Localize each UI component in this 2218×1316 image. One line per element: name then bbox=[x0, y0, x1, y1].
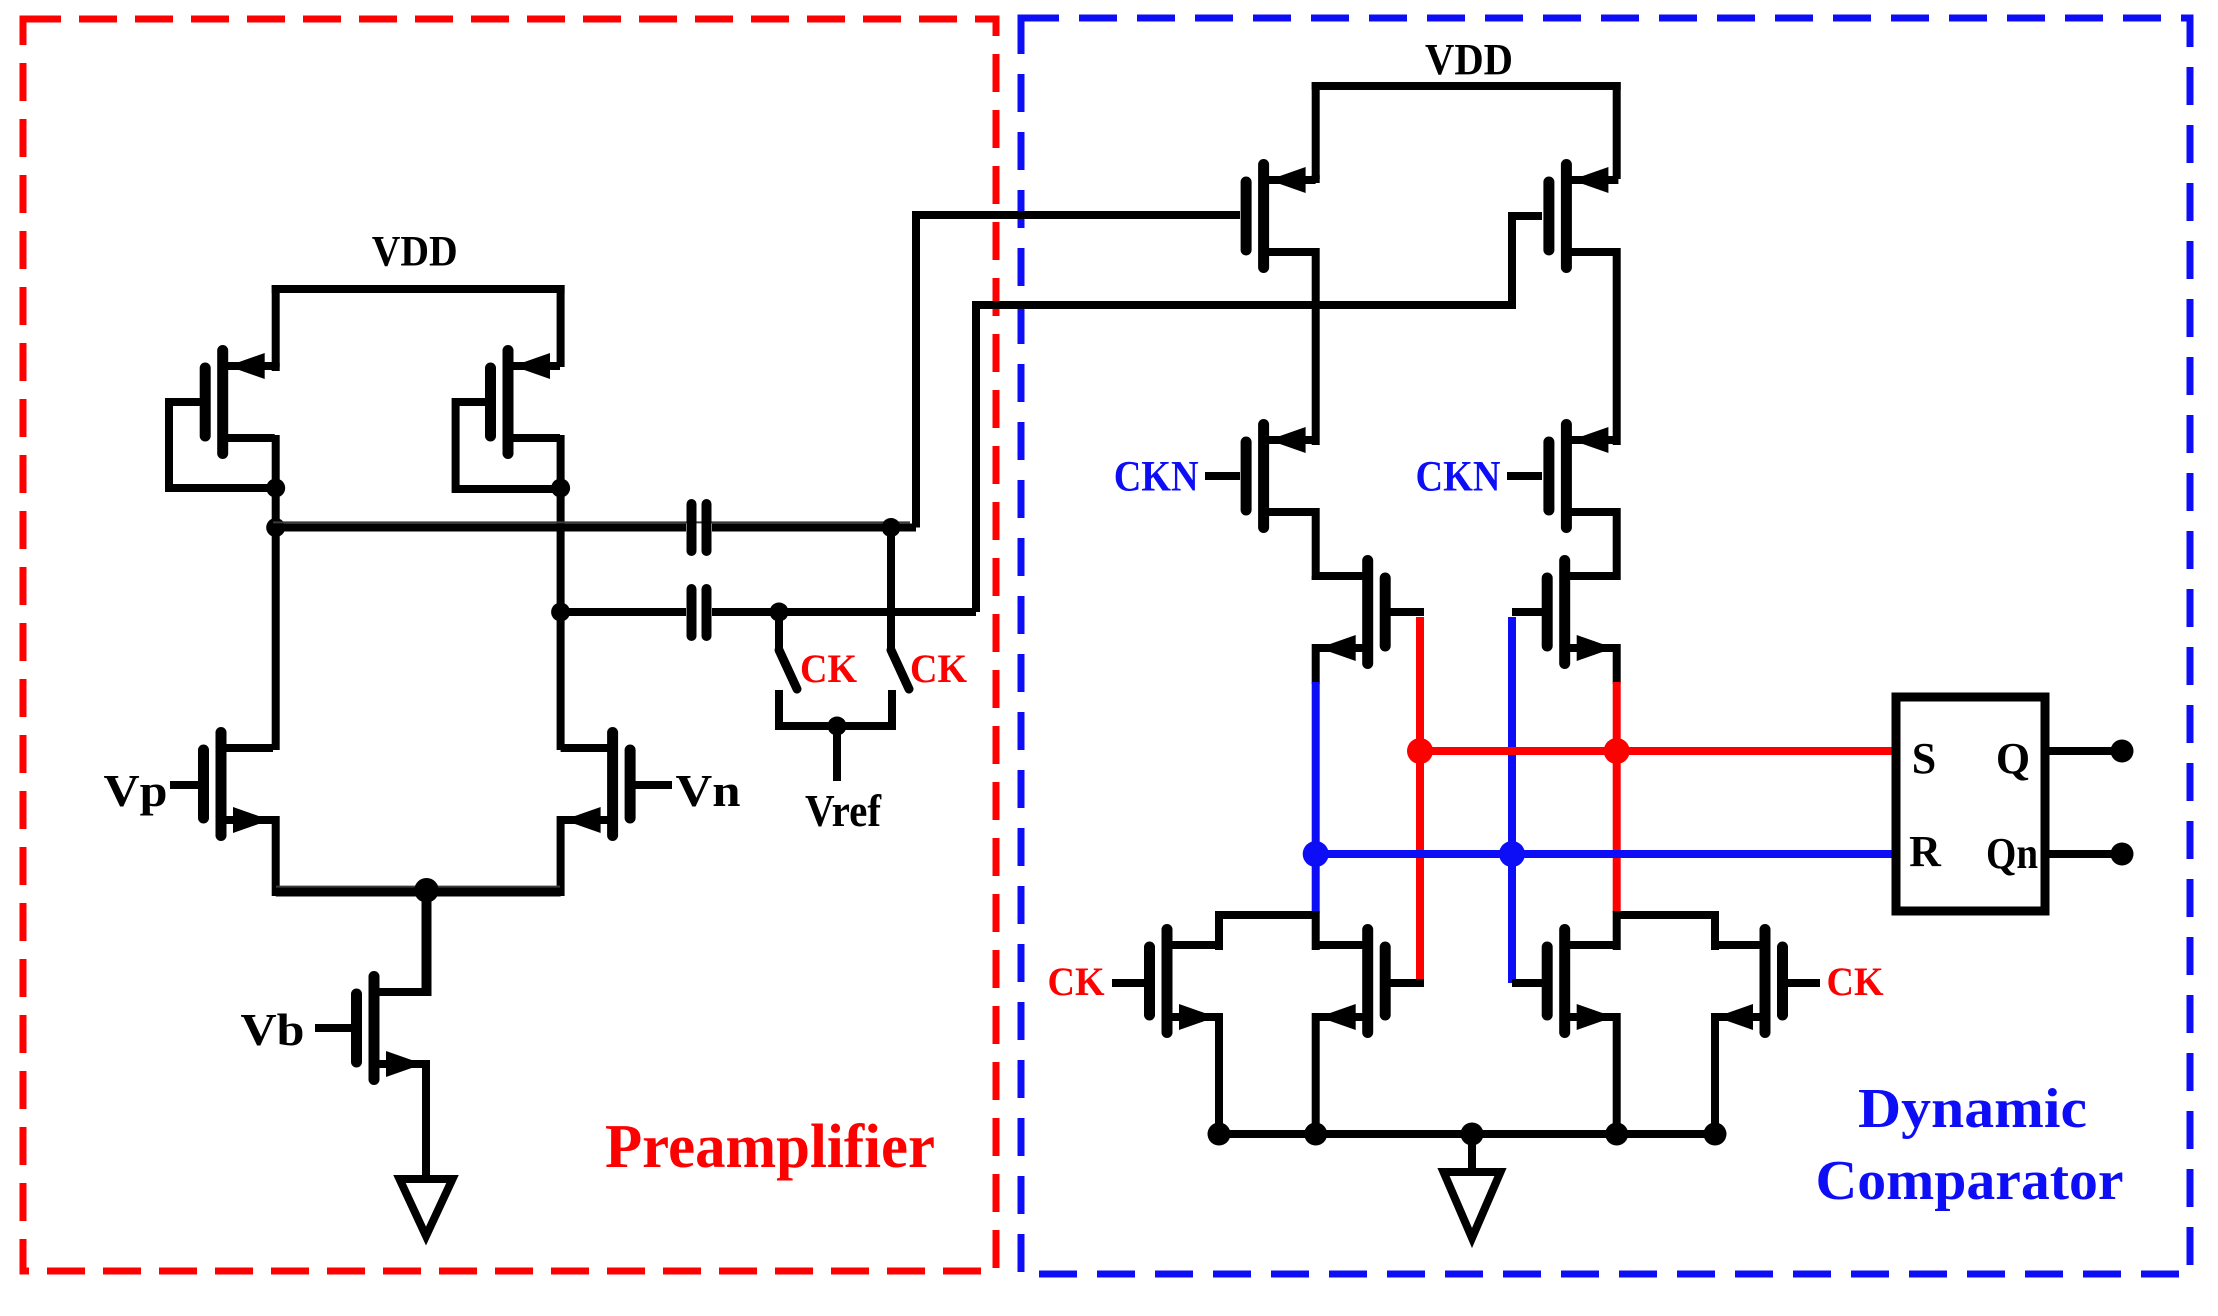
wire P3 drain down bbox=[1312, 508, 1320, 580]
transistor M5 cross-coupled (left) bbox=[1316, 561, 1386, 664]
wire tail to Vb drain bbox=[422, 890, 432, 996]
wire N3 gate stub to R net bbox=[1512, 979, 1542, 987]
wire R net blue vertical (right) bbox=[1508, 617, 1516, 983]
wire N2 source drop bbox=[1312, 1013, 1320, 1134]
wire ground stub (comparator) bbox=[1468, 1134, 1476, 1173]
NMOS input pair Vn (right) bbox=[561, 733, 631, 836]
Dynamic Comparator dashed boundary box bbox=[1021, 18, 2190, 1274]
node M1 drain junction bbox=[266, 479, 285, 498]
node rail junction N2 bbox=[1304, 1123, 1327, 1146]
wire Vn gate stub bbox=[631, 781, 673, 789]
switch S2 blade (CK) bbox=[891, 650, 909, 689]
node M2 drain junction bbox=[551, 479, 570, 498]
capacitor C2 (lower coupling cap) bbox=[692, 589, 707, 636]
ground symbol (preamp) bbox=[400, 1179, 453, 1236]
wire VDD drop left bbox=[1312, 82, 1320, 179]
node preamp output- tap bbox=[551, 603, 570, 622]
Preamplifier dashed boundary box bbox=[23, 19, 996, 1271]
switch S2 hanging wire from upper node bbox=[887, 528, 895, 653]
wire M2 drain to Vn drain bbox=[557, 488, 565, 750]
wire N1 gate stub bbox=[1112, 979, 1145, 987]
wire output Q bbox=[2045, 747, 2113, 755]
wire S net red horizontal to latch bbox=[1420, 747, 1896, 755]
node rail junction N4 bbox=[1704, 1123, 1727, 1146]
switch S1 top contact bbox=[775, 612, 783, 652]
wire S net red vertical (left) bbox=[1416, 617, 1424, 983]
wire drain bracket left pair bbox=[1219, 915, 1316, 950]
svg-text:S: S bbox=[1912, 734, 1936, 783]
wire M5 top terminal corner bbox=[1312, 576, 1320, 580]
svg-text:Qn: Qn bbox=[1986, 829, 2038, 878]
wire artifact thin line above tail rail bbox=[276, 886, 560, 888]
wire drain bracket right pair bbox=[1617, 915, 1715, 950]
wire M1 source corner bbox=[272, 363, 280, 371]
NMOS tail current source Vb bbox=[357, 977, 427, 1080]
wire N1 source drop bbox=[1215, 1013, 1223, 1134]
wire N3 source drop bbox=[1613, 1013, 1621, 1134]
node R net junction right bbox=[1499, 841, 1525, 867]
wire Vp gate stub bbox=[170, 781, 203, 789]
transistor M6 cross-coupled (right) bbox=[1547, 561, 1617, 664]
wire tail rail bbox=[276, 888, 561, 897]
NMOS input pair Vp (left) bbox=[204, 733, 274, 836]
svg-text:CK: CK bbox=[910, 646, 967, 691]
wire N4 source drop bbox=[1711, 1013, 1719, 1134]
PMOS P2 (top right) bbox=[1549, 165, 1619, 268]
wire M6 gate stub to R net bbox=[1512, 608, 1542, 616]
terminal Qn output bbox=[2111, 843, 2134, 866]
wire VDD drop to M2 source bbox=[557, 285, 565, 367]
wire M2 drain drop bbox=[557, 435, 565, 492]
svg-text:CK: CK bbox=[1048, 959, 1105, 1004]
wire cap C2 to comparator riser 2 bbox=[712, 608, 976, 616]
svg-text:Dynamic: Dynamic bbox=[1858, 1078, 2087, 1140]
node preamp output+ tap bbox=[266, 518, 285, 537]
wire P4 drain down bbox=[1613, 508, 1621, 580]
node switch S2 tap on upper wire bbox=[882, 518, 901, 537]
PMOS M1 diode-connected load (left) bbox=[205, 351, 275, 454]
svg-text:Vb: Vb bbox=[241, 1004, 305, 1055]
wire VDD rail (preamp) bbox=[272, 285, 565, 293]
terminal Q output bbox=[2111, 740, 2134, 763]
wire cap C1 to comparator riser bbox=[712, 524, 916, 532]
wire Vref stub bbox=[833, 726, 841, 781]
svg-text:CK: CK bbox=[800, 646, 857, 691]
wire R net blue horizontal to latch bbox=[1316, 850, 1896, 858]
wire P1 source corner bbox=[1312, 175, 1320, 183]
node rail junction N1 bbox=[1208, 1123, 1231, 1146]
wire VDD rail (comparator) bbox=[1312, 82, 1621, 90]
wire preamp out- riser to comparator gate bbox=[976, 216, 1542, 612]
wire M5 gate stub to S net bbox=[1390, 608, 1424, 616]
NMOS N4 clocked CK (outer right) bbox=[1713, 930, 1783, 1033]
wire M1 drain drop bbox=[272, 435, 280, 492]
switch S1 bottom contact bbox=[775, 690, 783, 730]
wire M1 gate to drain (diode connection) bbox=[169, 402, 276, 488]
svg-text:Vp: Vp bbox=[104, 765, 168, 816]
wire VDD drop right bbox=[1613, 82, 1621, 179]
wire M6 source stub down bbox=[1613, 644, 1621, 684]
wire S net red vertical (outer right) bbox=[1613, 682, 1621, 913]
PMOS P3 clock switch CKN (left) bbox=[1246, 425, 1316, 528]
wire common source rail bbox=[1219, 1130, 1715, 1138]
wire M1 drain to Vp drain bbox=[272, 488, 280, 750]
PMOS P4 clock switch CKN (right) bbox=[1549, 425, 1619, 528]
svg-text:Q: Q bbox=[1996, 734, 2030, 783]
wire output- to coupling cap C2 bbox=[561, 608, 686, 616]
wire P1 drain to CKN PMOS P3 bbox=[1312, 248, 1320, 445]
wire R net blue vertical (outer left) bbox=[1312, 682, 1320, 913]
svg-text:R: R bbox=[1909, 827, 1942, 876]
switch S2 bottom contact bbox=[888, 690, 896, 730]
node R net junction left bbox=[1303, 841, 1329, 867]
wire CKN left gate stub bbox=[1205, 472, 1240, 480]
svg-text:Preamplifier: Preamplifier bbox=[605, 1113, 935, 1181]
wire M5 source stub down bbox=[1312, 644, 1320, 684]
node rail junction ground tap bbox=[1461, 1123, 1484, 1146]
svg-text:Vref: Vref bbox=[805, 786, 882, 836]
wire Vp source to tail bbox=[272, 816, 280, 896]
wire P2 drain to CKN PMOS P4 bbox=[1613, 248, 1621, 445]
wire CKN right gate stub bbox=[1507, 472, 1542, 480]
svg-text:CKN: CKN bbox=[1114, 454, 1199, 501]
wire artifact thin line above output+ wire bbox=[273, 521, 910, 523]
wire N2 gate stub to S net bbox=[1390, 979, 1424, 987]
node S net junction right bbox=[1604, 738, 1630, 764]
PMOS P1 (top left) bbox=[1246, 165, 1316, 268]
wire N4 gate stub bbox=[1787, 979, 1820, 987]
SR latch U1 bbox=[1896, 697, 2045, 911]
wire Vn source to tail bbox=[557, 816, 565, 896]
NMOS N1 clocked CK (outer left) bbox=[1150, 930, 1220, 1033]
svg-text:CK: CK bbox=[1827, 959, 1884, 1004]
ground symbol (comparator) bbox=[1444, 1172, 1501, 1238]
svg-text:Comparator: Comparator bbox=[1816, 1150, 2124, 1212]
NMOS N3 cross-coupled (inner right) bbox=[1547, 930, 1617, 1033]
wire Vref bar bbox=[775, 722, 896, 730]
node tail junction bbox=[414, 878, 439, 903]
PMOS M2 diode-connected load (right) bbox=[491, 351, 561, 454]
wire Vb source to ground bbox=[422, 1060, 430, 1179]
svg-text:VDD: VDD bbox=[1425, 35, 1513, 84]
node switch S1 tap on lower wire bbox=[770, 603, 789, 622]
switch S1 blade (CK) bbox=[779, 650, 797, 689]
svg-text:CKN: CKN bbox=[1416, 454, 1501, 501]
NMOS N2 cross-coupled (inner left) bbox=[1316, 930, 1386, 1033]
svg-text:VDD: VDD bbox=[372, 229, 458, 276]
wire Vb gate stub bbox=[315, 1024, 356, 1032]
wire output Qn bbox=[2045, 850, 2113, 858]
capacitor C1 (upper coupling cap) bbox=[692, 504, 707, 551]
wire output+ to coupling cap C1 bbox=[276, 524, 686, 532]
svg-text:Vn: Vn bbox=[676, 765, 741, 816]
wire M2 gate to drain (diode connection) bbox=[456, 402, 561, 489]
node rail junction N3 bbox=[1605, 1123, 1628, 1146]
node S net junction left bbox=[1407, 738, 1433, 764]
wire preamp out+ riser to comparator gate bbox=[916, 215, 1240, 528]
node Vref junction bbox=[828, 717, 847, 736]
wire VDD drop to M1 source bbox=[272, 285, 280, 367]
